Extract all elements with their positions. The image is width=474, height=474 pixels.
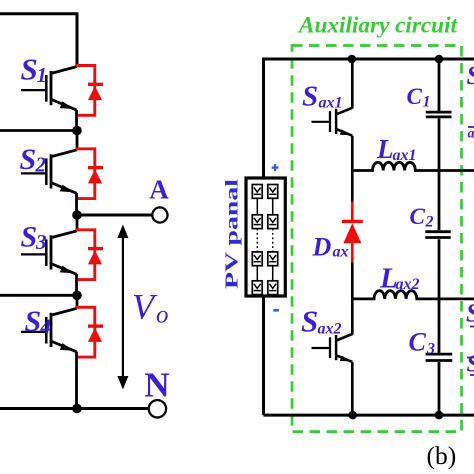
diode D1 (76, 66, 103, 116)
svg-text:ax1: ax1 (319, 95, 343, 112)
capacitor C1 (426, 112, 452, 117)
svg-text:S: S (21, 52, 38, 87)
wire S_ax1 collector (351, 59, 354, 109)
wire capacitor rail (438, 59, 441, 415)
node A junction (72, 210, 82, 220)
svg-text:ax2: ax2 (318, 321, 342, 338)
diode D_ax (342, 171, 363, 299)
wire S1 emitter (75, 110, 78, 131)
svg-text:4: 4 (40, 315, 52, 339)
node top S_ax1 (348, 55, 357, 64)
inductor L_ax2 (352, 291, 474, 299)
svg-text:C: C (407, 84, 423, 109)
svg-text:N: N (144, 366, 169, 405)
svg-text:L: L (376, 134, 394, 164)
svg-text:2: 2 (35, 153, 47, 177)
terminal A (152, 207, 167, 222)
transistor S4 (21, 308, 77, 352)
svg-text:S: S (302, 81, 318, 113)
wire S2 emitter (75, 193, 78, 215)
green dashed auxiliary box (292, 46, 462, 432)
wire left rail lower (262, 296, 265, 415)
wire top rail (0, 14, 77, 67)
node top cap rail (435, 55, 444, 64)
wire S_ax1 emitter (351, 136, 354, 171)
edge label fragment S mid (466, 299, 474, 328)
svg-text:S: S (21, 221, 38, 254)
wire S4 emitter (75, 352, 78, 409)
wire S3 emitter (75, 274, 78, 295)
svg-text:2: 2 (425, 214, 434, 231)
transistor S2 (21, 150, 77, 194)
terminal N (149, 400, 166, 417)
label - (273, 309, 279, 312)
label + (272, 164, 279, 171)
svg-text:a: a (468, 127, 474, 142)
svg-text:S: S (467, 352, 474, 378)
wire node A (77, 214, 152, 217)
svg-text:Auxiliary circuit: Auxiliary circuit (297, 13, 458, 39)
transistor S_ax2 (312, 334, 353, 362)
svg-text:(b): (b) (427, 441, 457, 470)
node bottom S_ax2 (348, 411, 357, 420)
wire n1 to S2 (76, 131, 79, 151)
inductor L_ax1 (352, 162, 474, 170)
wire n1 left (0, 129, 77, 132)
svg-text:1: 1 (423, 94, 431, 111)
wire A to S3 (76, 215, 79, 231)
transistor S1 (21, 67, 77, 111)
svg-text:C: C (410, 204, 426, 229)
diode D2 (76, 149, 103, 199)
wire bottom bus (264, 414, 474, 417)
capacitor C2 (425, 232, 450, 238)
svg-text:D: D (312, 233, 332, 262)
svg-text:C: C (409, 328, 427, 357)
edge label fragment a-bar (468, 127, 474, 142)
diode D3 (76, 230, 103, 280)
node n1 (72, 126, 82, 136)
svg-text:A: A (149, 175, 169, 205)
Vo measurement arrow (117, 225, 128, 390)
svg-text:ax2: ax2 (396, 276, 420, 293)
svg-text:S: S (301, 304, 318, 339)
svg-text:o: o (156, 302, 169, 329)
svg-text:3: 3 (426, 341, 435, 358)
capacitor C3 (426, 354, 453, 360)
wire bottom rail (0, 407, 149, 410)
svg-text:S: S (466, 299, 474, 328)
transistor S3 (21, 231, 77, 274)
node n4 (72, 404, 82, 414)
wire top bus (264, 59, 474, 178)
edge label fragment S-bar bottom (467, 352, 474, 378)
svg-text:S: S (467, 61, 474, 90)
svg-text:3: 3 (35, 230, 47, 254)
transistor S_ax1 (312, 108, 353, 136)
svg-text:S: S (25, 305, 42, 338)
wire S_ax2 collector (351, 299, 354, 335)
wire n3 left (0, 294, 77, 297)
svg-text:ax1: ax1 (393, 147, 417, 164)
svg-text:1: 1 (37, 63, 48, 87)
svg-text:ax: ax (333, 244, 349, 261)
node n3 (72, 291, 82, 301)
node bottom cap rail (435, 411, 444, 420)
wire n3 to S4 (76, 295, 79, 308)
svg-text:PV panal: PV panal (222, 179, 242, 289)
PV panel (246, 178, 285, 296)
wire S_ax2 emitter (351, 362, 354, 415)
diode D4 (76, 307, 103, 357)
svg-text:S: S (20, 143, 37, 176)
